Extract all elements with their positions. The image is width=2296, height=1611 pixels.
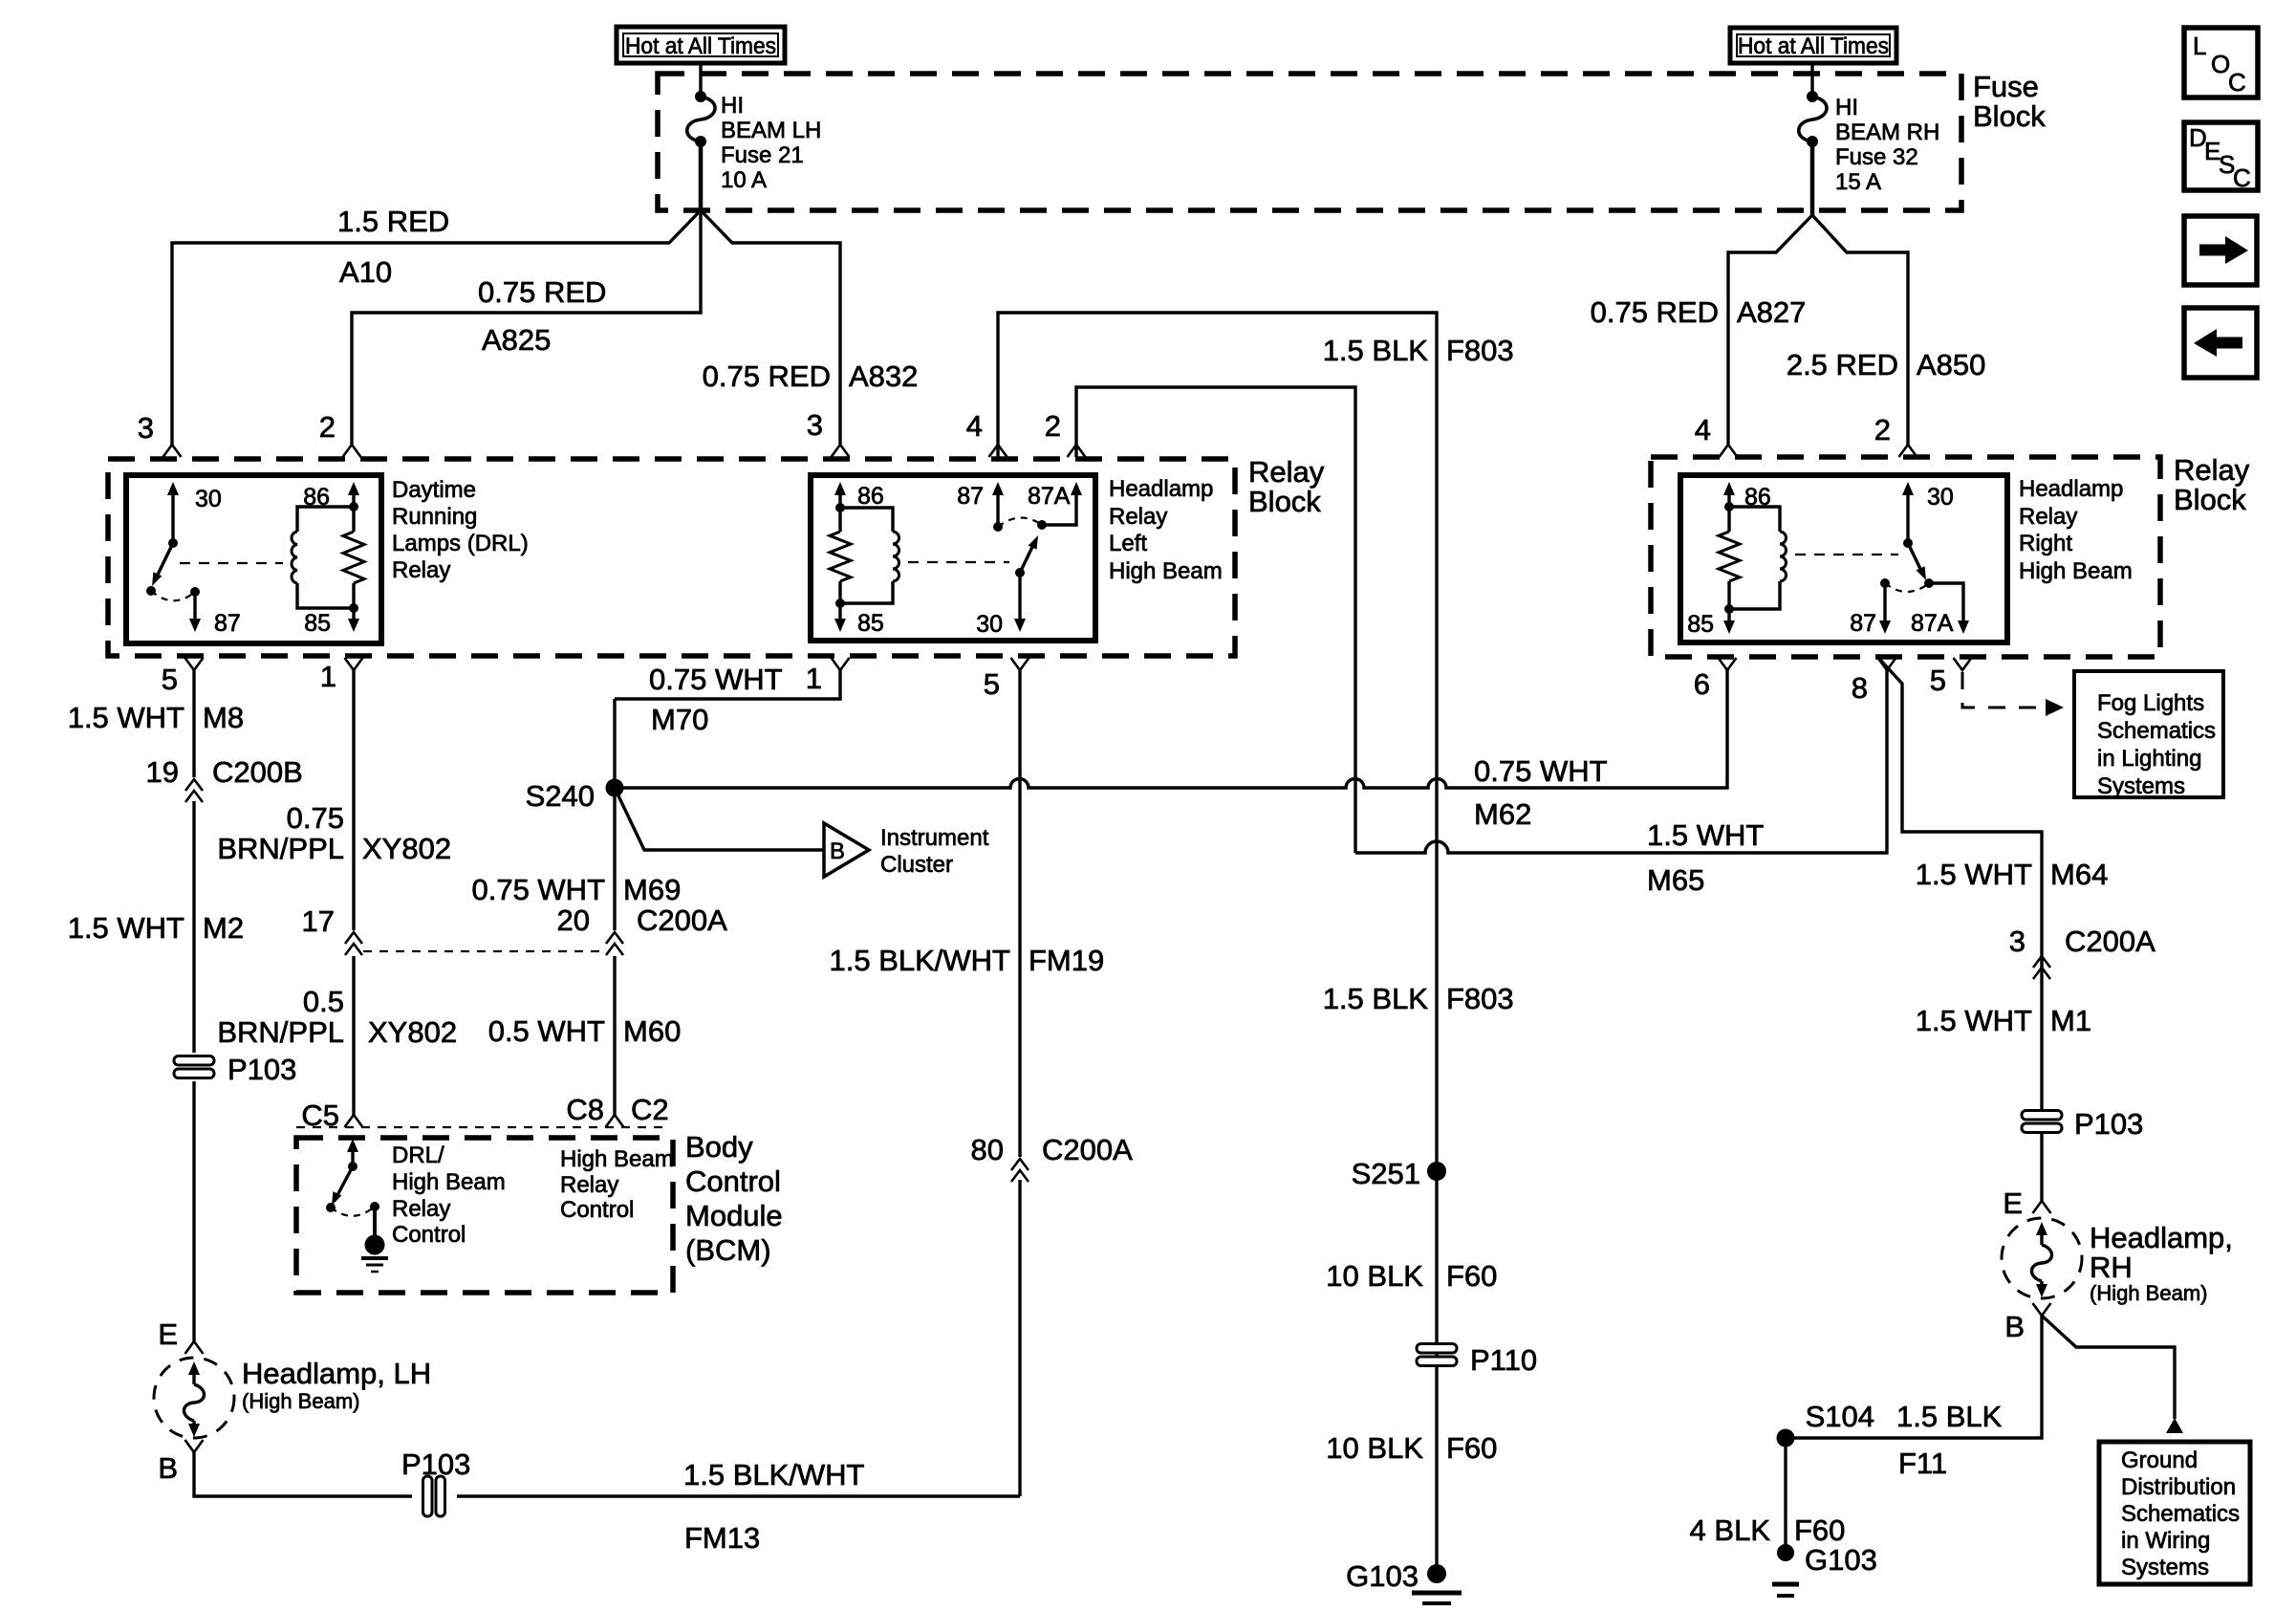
svg-text:C200A: C200A bbox=[2065, 925, 2155, 958]
svg-text:0.75 RED: 0.75 RED bbox=[1591, 295, 1719, 329]
svg-text:(High Beam): (High Beam) bbox=[2090, 1281, 2207, 1305]
svg-text:87: 87 bbox=[1850, 610, 1876, 637]
svg-text:RH: RH bbox=[2090, 1251, 2133, 1284]
svg-text:M65: M65 bbox=[1647, 863, 1704, 897]
svg-text:85: 85 bbox=[1687, 611, 1714, 638]
svg-text:P103: P103 bbox=[401, 1448, 470, 1481]
svg-text:17: 17 bbox=[302, 904, 335, 938]
svg-text:P103: P103 bbox=[2074, 1107, 2143, 1141]
svg-text:FM13: FM13 bbox=[684, 1521, 760, 1555]
svg-text:0.75 RED: 0.75 RED bbox=[703, 359, 831, 393]
svg-text:1.5 BLK/WHT: 1.5 BLK/WHT bbox=[683, 1458, 865, 1491]
svg-text:Hot at All Times: Hot at All Times bbox=[625, 33, 776, 59]
svg-text:0.75: 0.75 bbox=[287, 801, 344, 835]
svg-text:6: 6 bbox=[1694, 667, 1710, 701]
svg-text:0.75 RED: 0.75 RED bbox=[478, 275, 606, 309]
svg-text:Systems: Systems bbox=[2121, 1555, 2209, 1580]
svg-text:2: 2 bbox=[1045, 409, 1061, 443]
svg-text:HI: HI bbox=[1835, 95, 1858, 120]
svg-text:5: 5 bbox=[984, 667, 1000, 701]
svg-text:1.5 WHT: 1.5 WHT bbox=[68, 911, 184, 945]
svg-text:1.5 BLK/WHT: 1.5 BLK/WHT bbox=[830, 944, 1011, 977]
svg-text:F803: F803 bbox=[1446, 982, 1514, 1015]
svg-text:Instrument: Instrument bbox=[880, 825, 989, 851]
svg-text:4: 4 bbox=[966, 409, 983, 443]
svg-text:in Wiring: in Wiring bbox=[2121, 1528, 2210, 1554]
svg-text:Relay: Relay bbox=[2174, 453, 2250, 487]
svg-text:3: 3 bbox=[138, 411, 154, 445]
svg-text:BEAM RH: BEAM RH bbox=[1835, 120, 1939, 145]
svg-text:C2: C2 bbox=[631, 1093, 669, 1126]
svg-text:Relay: Relay bbox=[392, 557, 450, 583]
svg-text:Headlamp: Headlamp bbox=[1109, 476, 1213, 502]
svg-text:86: 86 bbox=[857, 483, 884, 510]
svg-text:M64: M64 bbox=[2050, 858, 2108, 891]
svg-text:HI: HI bbox=[721, 93, 744, 119]
svg-text:30: 30 bbox=[976, 611, 1003, 638]
svg-text:Distribution: Distribution bbox=[2121, 1474, 2236, 1500]
svg-text:Module: Module bbox=[685, 1199, 783, 1232]
svg-text:1: 1 bbox=[320, 660, 336, 693]
svg-text:M8: M8 bbox=[203, 701, 244, 734]
svg-text:F60: F60 bbox=[1446, 1259, 1497, 1293]
svg-text:Fuse 21: Fuse 21 bbox=[721, 142, 804, 168]
svg-text:0.5: 0.5 bbox=[303, 985, 344, 1018]
svg-text:5: 5 bbox=[1930, 664, 1946, 697]
svg-text:1.5 RED: 1.5 RED bbox=[337, 205, 449, 238]
svg-text:87: 87 bbox=[214, 610, 241, 637]
svg-text:Control: Control bbox=[685, 1165, 781, 1198]
svg-text:M69: M69 bbox=[623, 873, 681, 906]
svg-text:Systems: Systems bbox=[2097, 773, 2185, 799]
svg-text:Fuse: Fuse bbox=[1973, 70, 2039, 103]
svg-text:10 A: 10 A bbox=[721, 167, 767, 193]
svg-text:G103: G103 bbox=[1346, 1559, 1419, 1593]
svg-text:FM19: FM19 bbox=[1029, 944, 1104, 977]
svg-text:Left: Left bbox=[1109, 531, 1147, 556]
svg-text:0.5 WHT: 0.5 WHT bbox=[488, 1014, 605, 1048]
svg-text:S104: S104 bbox=[1806, 1400, 1874, 1433]
svg-text:Hot at All Times: Hot at All Times bbox=[1738, 33, 1889, 59]
svg-text:Block: Block bbox=[1248, 485, 1321, 518]
svg-text:DRL/: DRL/ bbox=[392, 1143, 444, 1168]
svg-text:Body: Body bbox=[685, 1130, 753, 1164]
svg-text:0.75 WHT: 0.75 WHT bbox=[471, 873, 605, 906]
svg-text:L: L bbox=[2193, 32, 2206, 60]
svg-text:High Beam: High Beam bbox=[1109, 558, 1223, 584]
svg-text:(High Beam): (High Beam) bbox=[242, 1389, 359, 1413]
svg-text:2: 2 bbox=[1874, 413, 1891, 446]
svg-text:E: E bbox=[158, 1317, 178, 1351]
svg-text:85: 85 bbox=[304, 610, 331, 637]
svg-text:1.5 BLK: 1.5 BLK bbox=[1323, 334, 1429, 367]
svg-text:1.5 BLK: 1.5 BLK bbox=[1896, 1400, 2003, 1433]
svg-text:F60: F60 bbox=[1446, 1431, 1497, 1465]
svg-text:20: 20 bbox=[557, 903, 590, 937]
svg-text:Fog Lights: Fog Lights bbox=[2097, 690, 2204, 716]
svg-text:Lamps (DRL): Lamps (DRL) bbox=[392, 531, 529, 556]
svg-text:1.5 WHT: 1.5 WHT bbox=[68, 701, 184, 734]
svg-text:85: 85 bbox=[857, 610, 884, 637]
svg-text:BRN/PPL: BRN/PPL bbox=[217, 832, 344, 865]
svg-text:BEAM LH: BEAM LH bbox=[721, 118, 821, 143]
svg-text:Ground: Ground bbox=[2121, 1448, 2198, 1473]
svg-text:Right: Right bbox=[2019, 531, 2072, 556]
svg-text:C200B: C200B bbox=[212, 755, 303, 789]
svg-text:M2: M2 bbox=[203, 911, 244, 945]
svg-text:10 BLK: 10 BLK bbox=[1326, 1259, 1423, 1293]
svg-text:Fuse 32: Fuse 32 bbox=[1835, 144, 1918, 170]
svg-text:E: E bbox=[2003, 1186, 2023, 1220]
svg-text:0.75 WHT: 0.75 WHT bbox=[1474, 754, 1608, 788]
svg-text:Control: Control bbox=[392, 1222, 466, 1248]
svg-text:Running: Running bbox=[392, 504, 477, 530]
svg-text:Relay: Relay bbox=[560, 1172, 618, 1198]
svg-text:A825: A825 bbox=[482, 323, 551, 357]
svg-text:Control: Control bbox=[560, 1197, 634, 1223]
svg-text:Block: Block bbox=[2174, 483, 2246, 516]
svg-text:S240: S240 bbox=[526, 779, 595, 813]
svg-text:M60: M60 bbox=[623, 1014, 681, 1048]
svg-text:BRN/PPL: BRN/PPL bbox=[217, 1015, 344, 1049]
svg-text:F11: F11 bbox=[1898, 1447, 1947, 1480]
svg-text:4 BLK: 4 BLK bbox=[1690, 1513, 1771, 1547]
svg-text:C: C bbox=[2233, 163, 2251, 192]
svg-text:1.5 BLK: 1.5 BLK bbox=[1323, 982, 1429, 1015]
svg-text:High Beam: High Beam bbox=[2019, 558, 2133, 584]
svg-text:Cluster: Cluster bbox=[880, 852, 953, 878]
svg-text:P110: P110 bbox=[1470, 1343, 1537, 1377]
svg-text:Headlamp,: Headlamp, bbox=[2090, 1221, 2233, 1254]
svg-text:XY802: XY802 bbox=[362, 832, 451, 865]
svg-text:(BCM): (BCM) bbox=[685, 1233, 771, 1267]
svg-text:M70: M70 bbox=[651, 703, 708, 736]
svg-text:1.5 WHT: 1.5 WHT bbox=[1647, 818, 1764, 852]
svg-text:C: C bbox=[2228, 68, 2246, 97]
svg-text:A832: A832 bbox=[849, 359, 918, 393]
svg-text:4: 4 bbox=[1695, 413, 1711, 446]
svg-text:Block: Block bbox=[1973, 99, 2046, 133]
svg-text:1.5 WHT: 1.5 WHT bbox=[1916, 1004, 2032, 1037]
svg-text:0.75 WHT: 0.75 WHT bbox=[649, 663, 783, 696]
svg-text:5: 5 bbox=[162, 663, 178, 696]
svg-text:Relay: Relay bbox=[2019, 504, 2077, 530]
svg-text:Relay: Relay bbox=[1248, 455, 1325, 489]
svg-text:F60: F60 bbox=[1794, 1513, 1845, 1547]
svg-text:S251: S251 bbox=[1352, 1157, 1420, 1190]
svg-text:Headlamp, LH: Headlamp, LH bbox=[242, 1357, 431, 1390]
svg-text:XY802: XY802 bbox=[368, 1015, 457, 1049]
svg-text:in Lighting: in Lighting bbox=[2097, 746, 2201, 772]
svg-text:30: 30 bbox=[1927, 484, 1954, 511]
svg-text:B: B bbox=[158, 1451, 178, 1485]
svg-text:1.5 WHT: 1.5 WHT bbox=[1916, 858, 2032, 891]
svg-text:Relay: Relay bbox=[392, 1196, 450, 1222]
svg-text:Relay: Relay bbox=[1109, 504, 1167, 530]
svg-text:A10: A10 bbox=[339, 255, 392, 289]
svg-text:High Beam: High Beam bbox=[560, 1146, 674, 1172]
svg-text:1: 1 bbox=[806, 662, 822, 695]
svg-text:A827: A827 bbox=[1737, 295, 1806, 329]
svg-text:2: 2 bbox=[319, 410, 336, 444]
svg-text:87A: 87A bbox=[1028, 483, 1071, 510]
svg-text:Schematics: Schematics bbox=[2121, 1501, 2240, 1527]
svg-text:G103: G103 bbox=[1805, 1543, 1877, 1577]
svg-text:C8: C8 bbox=[566, 1093, 604, 1126]
svg-text:87A: 87A bbox=[1911, 610, 1954, 637]
svg-text:M62: M62 bbox=[1474, 797, 1531, 831]
svg-text:B: B bbox=[830, 838, 845, 864]
svg-text:F803: F803 bbox=[1446, 334, 1514, 367]
svg-text:3: 3 bbox=[807, 408, 823, 442]
svg-text:19: 19 bbox=[146, 755, 179, 789]
svg-text:87: 87 bbox=[957, 483, 984, 510]
svg-text:Headlamp: Headlamp bbox=[2019, 476, 2123, 502]
svg-text:C200A: C200A bbox=[1042, 1133, 1133, 1166]
svg-text:3: 3 bbox=[2009, 925, 2025, 958]
svg-text:Daytime: Daytime bbox=[392, 477, 476, 503]
svg-text:C200A: C200A bbox=[637, 903, 727, 937]
svg-text:B: B bbox=[2004, 1310, 2025, 1343]
svg-text:High Beam: High Beam bbox=[392, 1169, 506, 1195]
svg-text:10 BLK: 10 BLK bbox=[1326, 1431, 1423, 1465]
svg-text:2.5 RED: 2.5 RED bbox=[1787, 348, 1898, 381]
svg-text:P103: P103 bbox=[227, 1053, 296, 1086]
svg-text:80: 80 bbox=[971, 1133, 1004, 1166]
svg-text:8: 8 bbox=[1852, 671, 1868, 705]
svg-text:15 A: 15 A bbox=[1835, 169, 1881, 195]
svg-text:M1: M1 bbox=[2050, 1004, 2091, 1037]
svg-text:Schematics: Schematics bbox=[2097, 718, 2216, 744]
svg-text:30: 30 bbox=[195, 486, 222, 512]
svg-text:A850: A850 bbox=[1917, 348, 1985, 381]
